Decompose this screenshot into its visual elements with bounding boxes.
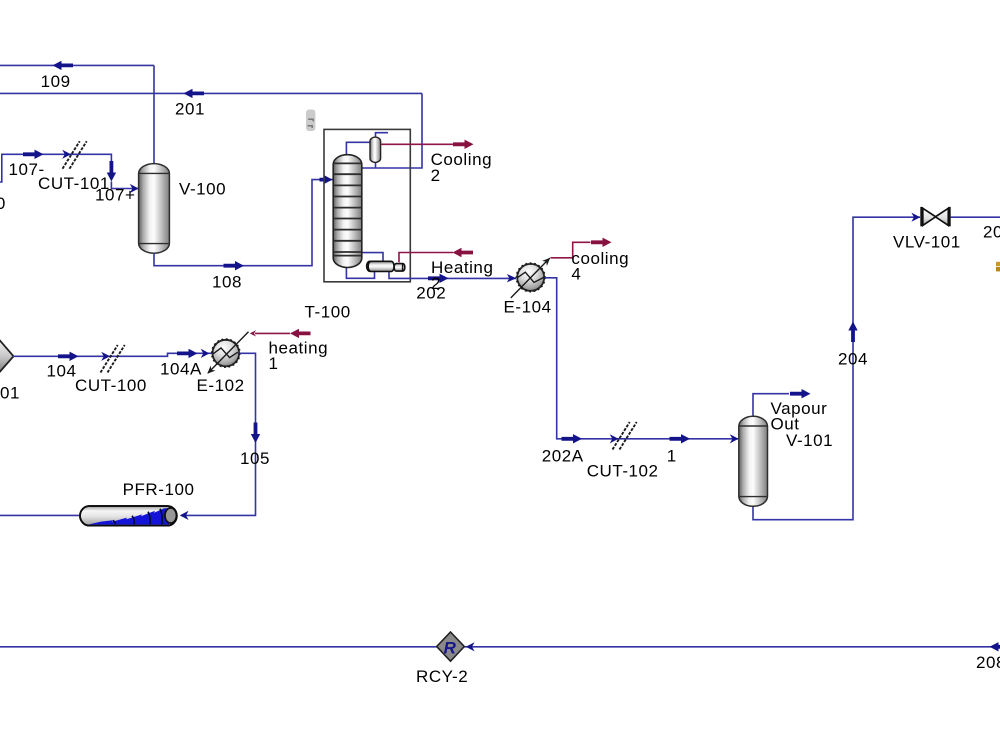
svg-text:202: 202 bbox=[416, 284, 446, 303]
arrow on stream 104 (flow right) bbox=[58, 352, 79, 361]
reactor PFR-100 bbox=[80, 506, 177, 526]
energy stream Heating 2 into reboiler bbox=[399, 248, 473, 262]
node label CUT-102 bbox=[587, 461, 659, 480]
wire: stream 201 vertical riser at x=422 bbox=[362, 93, 422, 168]
wire: Vapour Out from V-101 top bbox=[753, 394, 789, 417]
svg-text:1: 1 bbox=[667, 446, 677, 465]
node label RCY-2 bbox=[416, 667, 468, 686]
arrowhead stream into valve VLV-101 bbox=[911, 213, 920, 222]
svg-text:R: R bbox=[444, 638, 457, 657]
arrowhead into RCY-2 bbox=[466, 642, 475, 651]
arrowhead stream 104A into E-102 bbox=[201, 349, 210, 358]
wire: stream 107+ into V-100 bbox=[111, 182, 138, 189]
node label 01 (clipped equipment label) bbox=[0, 384, 20, 403]
node label 104A bbox=[160, 359, 202, 378]
svg-text:204: 204 bbox=[838, 349, 868, 368]
node label 108 bbox=[212, 272, 242, 291]
node label V-100 bbox=[179, 179, 226, 198]
node label 205 (clipped at right edge) bbox=[983, 223, 1000, 242]
arrow on stream 204 (flow up) bbox=[848, 322, 857, 343]
wire: stream 204 V-101 bottom right and up to valve bbox=[753, 217, 920, 520]
wire: stream 109 drop to V-100 top bbox=[153, 65, 155, 164]
energy stream Cooling 2 from condenser bbox=[381, 140, 474, 149]
valve VLV-101 bbox=[922, 207, 950, 226]
small gray cursor icon near T-100 bbox=[306, 110, 315, 132]
svg-text:E-102: E-102 bbox=[197, 376, 245, 395]
wire: condenser bottom to distillate line bbox=[375, 162, 377, 169]
svg-text:201: 201 bbox=[175, 100, 205, 119]
arrow on stream 202A (flow right) bbox=[562, 434, 583, 443]
mixer (clipped at left edge) bbox=[0, 340, 14, 373]
column subflowsheet boundary T-100 bbox=[324, 129, 410, 281]
svg-text:202A: 202A bbox=[542, 446, 584, 465]
node label 208 bbox=[976, 653, 1000, 672]
wire: PFR-100 outlet to left edge bbox=[0, 514, 80, 516]
node label E-102 bbox=[197, 376, 245, 395]
svg-text:PFR-100: PFR-100 bbox=[123, 480, 195, 499]
node label CUT-101 bbox=[38, 174, 110, 193]
node label 109 bbox=[41, 72, 71, 91]
arrow feed into T-100 column bbox=[320, 175, 333, 184]
node label heating 1 bbox=[269, 338, 329, 373]
node label 104 bbox=[47, 361, 77, 380]
arrow on stream 109 (flow left) bbox=[53, 61, 74, 70]
wire: stream 104 mixer to E-102 bbox=[13, 353, 212, 356]
node label 201 bbox=[175, 100, 205, 119]
node label 202A bbox=[542, 446, 584, 465]
node label 1 bbox=[667, 446, 677, 465]
arrowhead into V-100 bbox=[130, 184, 139, 193]
wire: recycle stream 208 across bottom bbox=[0, 646, 1000, 648]
node label PFR-100 bbox=[123, 480, 195, 499]
arrowhead into CUT-102 bbox=[610, 434, 619, 443]
svg-text:107+: 107+ bbox=[95, 185, 136, 204]
arrow on stream 104A (flow right) bbox=[177, 349, 198, 358]
svg-text:T-100: T-100 bbox=[305, 302, 351, 321]
vessel V-101 bbox=[739, 416, 768, 506]
energy stream heating 1 into E-102 bbox=[250, 329, 311, 338]
svg-text:CUT-100: CUT-100 bbox=[75, 376, 147, 395]
node label E-104 bbox=[504, 298, 552, 317]
svg-text:109: 109 bbox=[41, 72, 71, 91]
cut symbol CUT-101 bbox=[63, 141, 87, 169]
svg-text:205: 205 bbox=[983, 223, 1000, 242]
svg-text:105: 105 bbox=[240, 449, 270, 468]
arrow on stream 105 (flow down) bbox=[251, 423, 260, 444]
node label 105 bbox=[240, 449, 270, 468]
heat exchanger E-104 bbox=[511, 255, 553, 298]
arrowhead stream 105 into PFR-100 bbox=[180, 511, 189, 520]
svg-text:VLV-101: VLV-101 bbox=[893, 233, 961, 252]
arrowhead into CUT-100 bbox=[101, 352, 110, 361]
svg-text:108: 108 bbox=[212, 272, 242, 291]
node label T-100 bbox=[305, 302, 351, 321]
wire: stream 202 reboiler to E-104 bbox=[389, 271, 516, 278]
node label 107+ bbox=[95, 185, 136, 204]
arrow on stream 208 at right edge (flow left) bbox=[990, 642, 1000, 651]
wire: stream 109 horizontal bbox=[0, 64, 154, 66]
svg-text:CUT-102: CUT-102 bbox=[587, 461, 659, 480]
wire: condenser vent stub bbox=[376, 133, 389, 138]
arrow on stream 107- (flow right) bbox=[23, 150, 44, 159]
arrowhead stream 1 into V-101 bbox=[730, 434, 739, 443]
svg-text:01: 01 bbox=[0, 384, 20, 403]
wire: stream 105 E-102 outlet to PFR-100 bbox=[181, 353, 256, 515]
wire: tower bottom to reboiler bbox=[346, 266, 374, 278]
arrowhead into CUT-101 bbox=[62, 150, 71, 159]
svg-text:E-104: E-104 bbox=[504, 298, 552, 317]
node label 202 bbox=[416, 284, 446, 303]
condenser of T-100 bbox=[370, 137, 381, 162]
node label V-101 bbox=[786, 431, 833, 450]
svg-text:V-101: V-101 bbox=[786, 431, 833, 450]
wire: stream 201 horizontal from column to left edge bbox=[0, 92, 422, 94]
wire: tower overhead to condenser bbox=[346, 142, 370, 156]
wire: tower side draw to reboiler top bbox=[361, 253, 384, 263]
arrowhead stream 202 into E-104 bbox=[507, 274, 517, 282]
node label cooling 4 bbox=[571, 249, 629, 284]
node label 0 (clipped stream label at left edge) bbox=[0, 194, 6, 213]
arrow stream 107+ down bbox=[107, 161, 116, 182]
node label VLV-101 bbox=[893, 233, 961, 252]
svg-text:208: 208 bbox=[976, 653, 1000, 672]
svg-text:V-100: V-100 bbox=[179, 179, 226, 198]
node label 107- bbox=[9, 160, 45, 179]
heat exchanger E-102 bbox=[205, 332, 249, 376]
cut symbol CUT-100 bbox=[101, 345, 125, 373]
arrow on stream 108 (flow right) bbox=[224, 261, 245, 270]
wire: stream 108 V-100 bottoms to T-100 feed bbox=[154, 180, 333, 266]
node label Heating 2 bbox=[431, 258, 493, 293]
node label CUT-100 bbox=[75, 376, 147, 395]
svg-text:104: 104 bbox=[47, 361, 77, 380]
arrow on stream 202 (flow right) bbox=[428, 274, 449, 283]
recycle block RCY-2 bbox=[437, 632, 465, 661]
energy stream cooling 4 from E-104 bbox=[551, 238, 612, 258]
wire: stream into CUT-101 from left edge bbox=[0, 154, 111, 182]
arrow on stream 201 (flow left) bbox=[184, 89, 205, 98]
cut symbol CUT-102 bbox=[613, 422, 637, 450]
arrow on stream 1 (flow right) bbox=[670, 434, 691, 443]
arrow on Vapour Out (flow right) bbox=[790, 389, 811, 398]
reboiler of T-100 bbox=[367, 261, 405, 271]
svg-text:10: 10 bbox=[0, 194, 6, 213]
node label Cooling 2 bbox=[431, 150, 493, 185]
wire: stream 205 valve outlet to right edge bbox=[951, 216, 1000, 218]
svg-text:RCY-2: RCY-2 bbox=[416, 667, 468, 686]
clipped yellow marker at right edge bbox=[996, 262, 1000, 272]
tower of column T-100 bbox=[333, 155, 362, 268]
node label 204 bbox=[838, 349, 868, 368]
node label Vapour Out bbox=[771, 399, 828, 434]
wire: stream 202A E-104 outlet down and right bbox=[545, 278, 738, 439]
vessel V-100 bbox=[139, 164, 170, 254]
